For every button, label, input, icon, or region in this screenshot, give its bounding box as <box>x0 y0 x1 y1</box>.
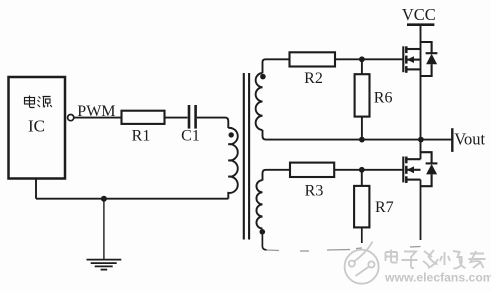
wire PWM pin to R1 <box>74 117 122 119</box>
resistor R7 <box>354 186 369 228</box>
wire R6 top lead <box>361 59 363 74</box>
wire R3 to gate of Q2 <box>334 169 403 171</box>
secondary top phase dot <box>260 74 266 80</box>
wire primary return rail <box>36 198 228 200</box>
svg-text:www.elecfans.com: www.elecfans.com <box>384 271 491 285</box>
wire Vout rail <box>266 139 453 141</box>
transistor Q1 MOSFET <box>403 42 437 76</box>
transformer core line left <box>243 73 245 240</box>
transformer core line right <box>248 73 250 240</box>
label 电源 (power) char 电 <box>25 96 35 108</box>
svg-text:R3: R3 <box>305 182 324 199</box>
label 电源 (power) char 源 <box>38 97 52 108</box>
wire Q1 source down to Vout rail <box>420 49 422 140</box>
IC U1 power-supply IC box 电源IC <box>9 77 66 179</box>
wire R7 bottom lead <box>361 227 363 243</box>
junction node R6 top <box>359 56 365 62</box>
primary phase dot <box>229 132 234 137</box>
wire down to ground <box>103 199 105 260</box>
wire secondary bottom to R3 <box>263 170 292 181</box>
transformer T1 secondary top winding <box>256 73 263 130</box>
svg-text:IC: IC <box>28 117 45 136</box>
svg-text:R1: R1 <box>132 127 151 144</box>
transistor Q2 MOSFET <box>403 152 437 186</box>
resistor R2 <box>290 52 336 66</box>
wire R2 to gate of Q1 <box>335 58 403 60</box>
wire IC bottom to ground rail <box>35 179 37 199</box>
svg-text:R7: R7 <box>375 199 394 216</box>
wire secondary bottom lead down <box>262 235 266 250</box>
junction node R6 bottom <box>359 137 365 143</box>
wire R7 top lead <box>361 170 363 186</box>
resistor R1 <box>122 111 165 124</box>
ground symbol <box>87 260 122 270</box>
wire R6 bottom lead <box>361 117 363 140</box>
capacitor C1 <box>189 105 196 129</box>
wire C1 to transformer primary <box>197 118 228 128</box>
svg-text:R2: R2 <box>304 70 323 87</box>
watermark logo circle <box>345 242 379 284</box>
wire Q2 source down <box>420 180 422 240</box>
junction node R7 top <box>359 167 365 173</box>
resistor R3 <box>290 163 334 177</box>
svg-text:C1: C1 <box>181 127 200 144</box>
junction node Q2 drain <box>418 137 424 143</box>
svg-text:R6: R6 <box>374 90 393 107</box>
wire secondary top bottom lead <box>263 130 267 140</box>
transformer T1 secondary bottom winding <box>256 180 262 228</box>
svg-text:VCC: VCC <box>402 5 436 24</box>
wire VCC to Q1 drain <box>420 25 422 49</box>
junction ground node <box>101 196 107 202</box>
resistor R6 <box>355 74 370 116</box>
wire bottom return rail (faded by watermark) <box>267 247 421 252</box>
pin terminal circle PWM output <box>68 115 74 121</box>
wire R1 to C1 <box>165 117 188 119</box>
svg-text:Vout: Vout <box>454 129 485 148</box>
Vout terminal tick <box>451 128 453 152</box>
wire Q2 drain from Vout rail <box>420 140 422 160</box>
wire secondary top to R2 <box>263 59 290 73</box>
watermark text 电子发烧友 <box>386 250 486 269</box>
secondary bottom phase dot <box>260 229 266 235</box>
VCC supply bar <box>407 23 434 26</box>
transformer T1 primary winding <box>228 128 237 199</box>
